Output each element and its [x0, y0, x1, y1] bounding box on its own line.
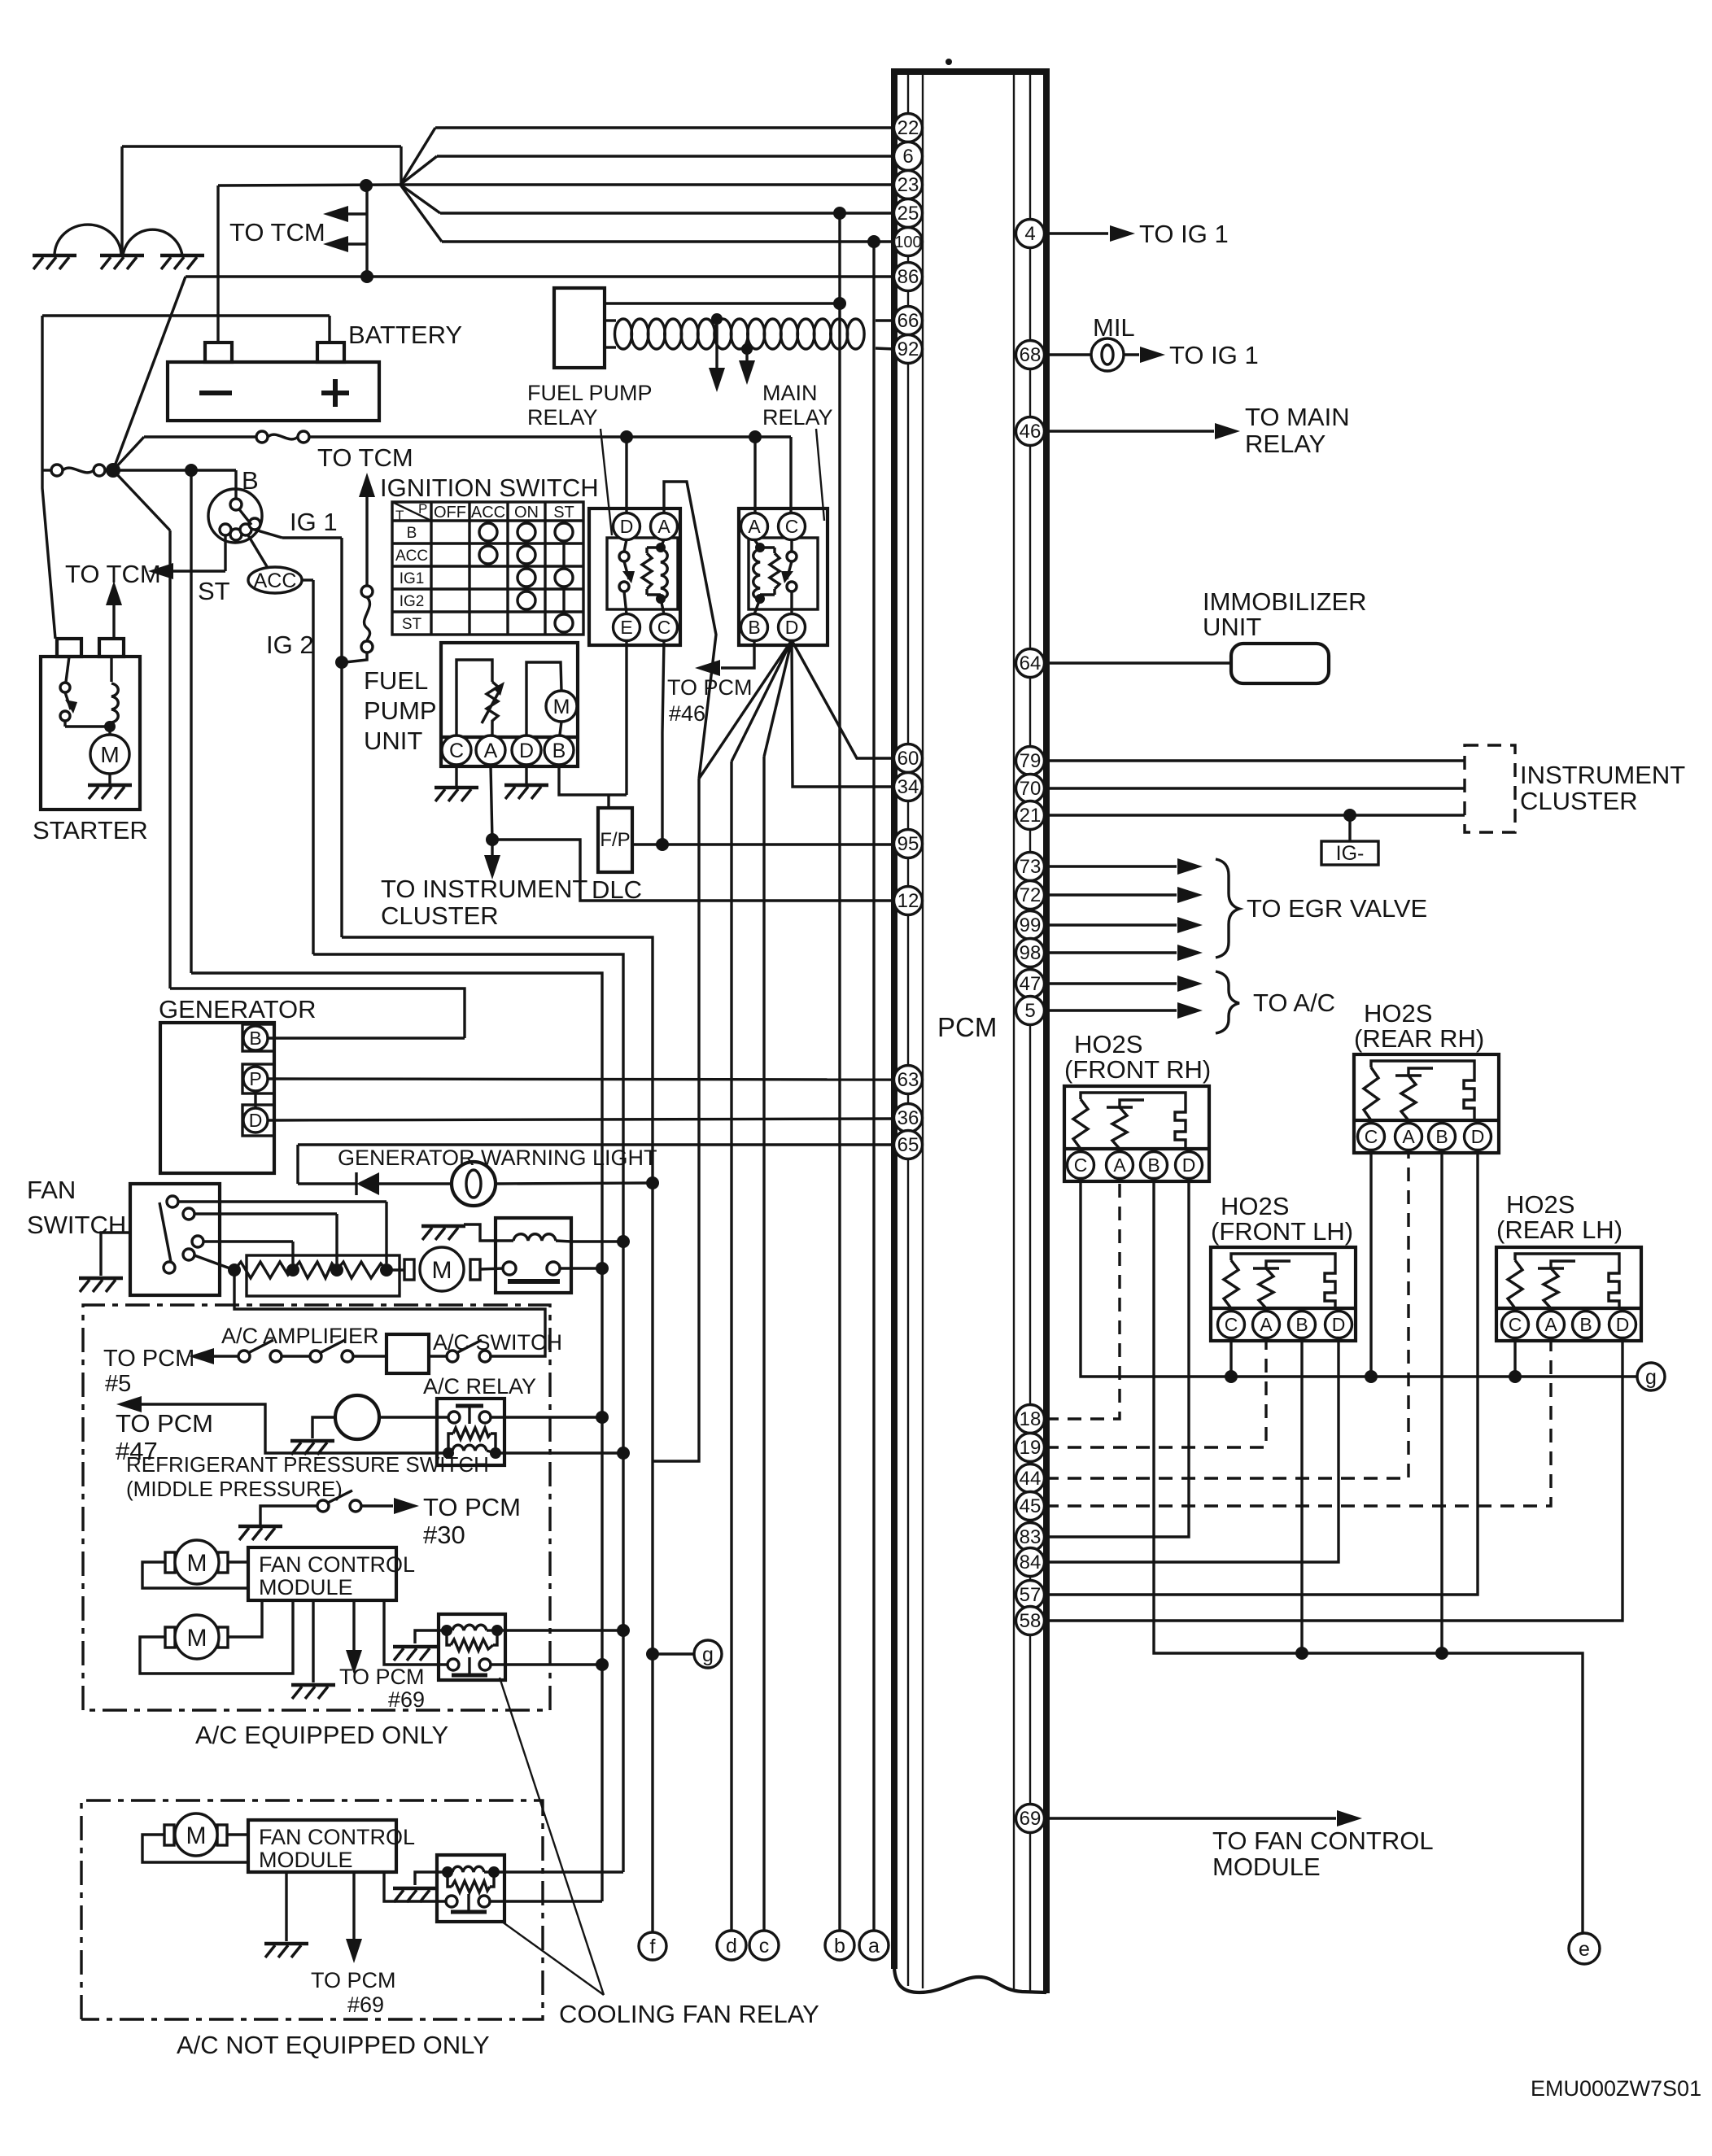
- svg-text:TO PCM: TO PCM: [116, 1409, 213, 1438]
- svg-text:A: A: [1402, 1126, 1415, 1147]
- svg-text:BATTERY: BATTERY: [348, 321, 462, 349]
- svg-text:A/C EQUIPPED ONLY: A/C EQUIPPED ONLY: [195, 1721, 448, 1749]
- svg-text:MODULE: MODULE: [259, 1575, 353, 1600]
- svg-text:(MIDDLE PRESSURE): (MIDDLE PRESSURE): [126, 1477, 343, 1501]
- svg-text:P: P: [249, 1068, 261, 1089]
- svg-text:B: B: [552, 740, 566, 762]
- svg-text:B: B: [1295, 1314, 1308, 1335]
- svg-text:REFRIGERANT PRESSURE SWITCH: REFRIGERANT PRESSURE SWITCH: [126, 1452, 489, 1477]
- svg-text:UNIT: UNIT: [1203, 613, 1261, 641]
- svg-text:64: 64: [1020, 652, 1042, 674]
- svg-text:MODULE: MODULE: [259, 1848, 353, 1872]
- svg-text:A: A: [484, 740, 498, 762]
- svg-text:B: B: [407, 525, 417, 542]
- svg-text:M: M: [187, 1625, 207, 1652]
- svg-text:MIL: MIL: [1093, 313, 1135, 342]
- svg-text:#46: #46: [669, 701, 705, 726]
- svg-text:a: a: [868, 1935, 880, 1957]
- svg-text:HO2S: HO2S: [1364, 999, 1432, 1028]
- svg-text:A/C SWITCH: A/C SWITCH: [433, 1330, 562, 1355]
- svg-text:22: 22: [897, 117, 919, 139]
- svg-text:58: 58: [1020, 1610, 1042, 1632]
- svg-text:F/P: F/P: [600, 829, 630, 851]
- svg-text:P: P: [418, 501, 427, 517]
- svg-text:21: 21: [1020, 805, 1042, 827]
- svg-text:D: D: [1471, 1126, 1485, 1147]
- svg-text:FAN: FAN: [27, 1176, 76, 1204]
- svg-text:IGNITION SWITCH: IGNITION SWITCH: [380, 474, 599, 502]
- svg-text:ST: ST: [198, 577, 230, 605]
- svg-text:A: A: [1544, 1314, 1557, 1335]
- svg-text:GENERATOR: GENERATOR: [159, 995, 317, 1023]
- svg-text:44: 44: [1020, 1468, 1042, 1490]
- svg-text:95: 95: [897, 833, 919, 855]
- svg-text:RELAY: RELAY: [762, 405, 833, 430]
- svg-text:A: A: [1113, 1154, 1126, 1176]
- svg-text:60: 60: [897, 748, 919, 770]
- svg-text:ACC: ACC: [471, 504, 505, 522]
- svg-text:IG 2: IG 2: [266, 631, 314, 659]
- svg-text:TO IG 1: TO IG 1: [1139, 220, 1229, 248]
- svg-text:TO PCM: TO PCM: [339, 1665, 425, 1689]
- svg-text:A: A: [748, 516, 761, 537]
- svg-text:FUEL: FUEL: [364, 666, 428, 695]
- svg-text:C: C: [1225, 1314, 1238, 1335]
- svg-text:83: 83: [1020, 1526, 1042, 1548]
- svg-text:HO2S: HO2S: [1221, 1192, 1289, 1220]
- svg-text:#69: #69: [388, 1687, 425, 1712]
- svg-text:C: C: [1365, 1126, 1378, 1147]
- svg-text:TO FAN CONTROL: TO FAN CONTROL: [1212, 1826, 1434, 1855]
- svg-text:PCM: PCM: [937, 1012, 997, 1042]
- svg-text:RELAY: RELAY: [1245, 430, 1325, 458]
- svg-text:12: 12: [897, 890, 919, 912]
- svg-text:D: D: [1332, 1314, 1346, 1335]
- svg-text:D: D: [249, 1110, 263, 1131]
- svg-text:TO A/C: TO A/C: [1253, 989, 1335, 1017]
- svg-text:70: 70: [1020, 778, 1042, 800]
- svg-text:FAN CONTROL: FAN CONTROL: [259, 1825, 415, 1849]
- svg-text:45: 45: [1020, 1495, 1042, 1517]
- svg-text:B: B: [1147, 1154, 1160, 1176]
- svg-text:73: 73: [1020, 856, 1042, 878]
- svg-text:IG2: IG2: [400, 593, 425, 610]
- svg-text:M: M: [100, 742, 119, 767]
- svg-text:MAIN: MAIN: [762, 381, 818, 405]
- svg-text:IG 1: IG 1: [290, 508, 338, 536]
- svg-text:HO2S: HO2S: [1074, 1030, 1142, 1058]
- svg-text:C: C: [449, 740, 464, 762]
- svg-text:(FRONT LH): (FRONT LH): [1211, 1217, 1353, 1246]
- svg-text:47: 47: [1020, 973, 1042, 995]
- svg-text:79: 79: [1020, 750, 1042, 772]
- svg-text:B: B: [1579, 1314, 1592, 1335]
- svg-text:98: 98: [1020, 942, 1042, 964]
- svg-text:HO2S: HO2S: [1506, 1190, 1574, 1219]
- svg-text:B: B: [249, 1028, 261, 1049]
- svg-text:INSTRUMENT: INSTRUMENT: [1520, 761, 1685, 789]
- svg-text:25: 25: [897, 203, 919, 225]
- svg-text:6: 6: [902, 146, 913, 168]
- svg-text:19: 19: [1020, 1437, 1042, 1459]
- svg-text:4: 4: [1024, 223, 1035, 245]
- svg-text:TO PCM: TO PCM: [103, 1346, 194, 1372]
- svg-text:A/C AMPLIFIER: A/C AMPLIFIER: [221, 1324, 379, 1348]
- svg-text:g: g: [702, 1643, 714, 1666]
- svg-text:CLUSTER: CLUSTER: [1520, 787, 1638, 815]
- svg-text:IMMOBILIZER: IMMOBILIZER: [1203, 587, 1367, 616]
- svg-text:b: b: [834, 1935, 845, 1957]
- svg-text:UNIT: UNIT: [364, 727, 422, 755]
- svg-text:D: D: [620, 516, 634, 537]
- svg-text:M: M: [186, 1822, 207, 1849]
- svg-text:f: f: [650, 1936, 656, 1958]
- svg-text:(REAR LH): (REAR LH): [1496, 1215, 1622, 1244]
- svg-text:5: 5: [1024, 1000, 1035, 1022]
- svg-text:c: c: [759, 1935, 770, 1957]
- svg-text:MODULE: MODULE: [1212, 1853, 1321, 1881]
- svg-text:M: M: [432, 1257, 452, 1284]
- svg-text:84: 84: [1020, 1552, 1042, 1573]
- svg-text:#30: #30: [423, 1521, 465, 1549]
- svg-text:ACC: ACC: [254, 570, 297, 592]
- svg-text:A: A: [657, 516, 670, 537]
- svg-text:92: 92: [897, 338, 919, 360]
- svg-text:C: C: [785, 516, 799, 537]
- svg-text:46: 46: [1020, 421, 1042, 443]
- svg-text:69: 69: [1020, 1808, 1042, 1830]
- svg-text:63: 63: [897, 1069, 919, 1091]
- svg-text:T: T: [395, 508, 404, 523]
- svg-text:TO PCM: TO PCM: [423, 1493, 521, 1521]
- svg-text:ST: ST: [402, 616, 422, 633]
- svg-text:B: B: [242, 466, 259, 495]
- svg-text:C: C: [1074, 1154, 1088, 1176]
- svg-text:ACC: ACC: [395, 548, 428, 565]
- svg-text:d: d: [726, 1935, 737, 1957]
- svg-text:D: D: [1182, 1154, 1196, 1176]
- svg-text:100: 100: [894, 233, 921, 251]
- svg-text:TO EGR VALVE: TO EGR VALVE: [1247, 894, 1427, 923]
- svg-text:#69: #69: [347, 1992, 384, 2017]
- svg-text:TO INSTRUMENT: TO INSTRUMENT: [381, 875, 587, 903]
- svg-text:TO TCM: TO TCM: [317, 443, 413, 472]
- svg-text:#5: #5: [105, 1371, 131, 1397]
- svg-text:86: 86: [897, 266, 919, 288]
- svg-text:e: e: [1579, 1938, 1590, 1961]
- svg-text:A/C RELAY: A/C RELAY: [423, 1374, 536, 1399]
- svg-text:57: 57: [1020, 1584, 1042, 1606]
- svg-text:TO IG 1: TO IG 1: [1169, 341, 1259, 369]
- svg-text:B: B: [1435, 1126, 1448, 1147]
- svg-text:ON: ON: [514, 504, 539, 522]
- svg-text:65: 65: [897, 1134, 919, 1156]
- svg-text:STARTER: STARTER: [33, 816, 148, 845]
- svg-text:23: 23: [897, 174, 919, 196]
- svg-text:34: 34: [897, 776, 919, 798]
- svg-text:C: C: [1509, 1314, 1522, 1335]
- svg-text:(FRONT RH): (FRONT RH): [1064, 1055, 1211, 1084]
- svg-text:ST: ST: [553, 504, 574, 522]
- svg-text:SWITCH: SWITCH: [27, 1211, 126, 1239]
- svg-text:72: 72: [1020, 884, 1042, 906]
- svg-text:IG1: IG1: [400, 570, 425, 587]
- svg-text:D: D: [519, 740, 534, 762]
- svg-text:66: 66: [897, 310, 919, 332]
- svg-text:FAN CONTROL: FAN CONTROL: [259, 1552, 415, 1577]
- svg-text:M: M: [187, 1550, 207, 1577]
- svg-text:OFF: OFF: [434, 504, 466, 522]
- svg-text:IG-: IG-: [1336, 842, 1365, 865]
- svg-text:DLC: DLC: [592, 875, 642, 904]
- svg-text:COOLING FAN RELAY: COOLING FAN RELAY: [559, 2000, 819, 2028]
- svg-text:A: A: [1260, 1314, 1273, 1335]
- svg-text:18: 18: [1020, 1408, 1042, 1430]
- svg-text:TO MAIN: TO MAIN: [1245, 403, 1350, 431]
- svg-text:GENERATOR WARNING LIGHT: GENERATOR WARNING LIGHT: [338, 1146, 657, 1170]
- svg-text:36: 36: [897, 1107, 919, 1129]
- svg-text:A/C NOT EQUIPPED ONLY: A/C NOT EQUIPPED ONLY: [177, 2031, 490, 2059]
- svg-text:D: D: [785, 617, 799, 638]
- svg-text:68: 68: [1020, 344, 1042, 366]
- svg-text:(REAR RH): (REAR RH): [1354, 1024, 1484, 1053]
- svg-text:TO PCM: TO PCM: [311, 1968, 396, 1992]
- svg-text:C: C: [657, 617, 671, 638]
- svg-text:B: B: [748, 617, 760, 638]
- svg-text:g: g: [1645, 1366, 1657, 1389]
- svg-text:E: E: [620, 617, 632, 638]
- svg-text:M: M: [553, 696, 570, 718]
- svg-text:RELAY: RELAY: [527, 405, 598, 430]
- svg-text:EMU000ZW7S01: EMU000ZW7S01: [1531, 2076, 1701, 2101]
- svg-text:FUEL PUMP: FUEL PUMP: [527, 381, 653, 405]
- svg-text:D: D: [1616, 1314, 1630, 1335]
- svg-text:PUMP: PUMP: [364, 696, 437, 725]
- svg-text:TO TCM: TO TCM: [229, 218, 325, 247]
- svg-text:99: 99: [1020, 914, 1042, 936]
- svg-text:CLUSTER: CLUSTER: [381, 901, 499, 930]
